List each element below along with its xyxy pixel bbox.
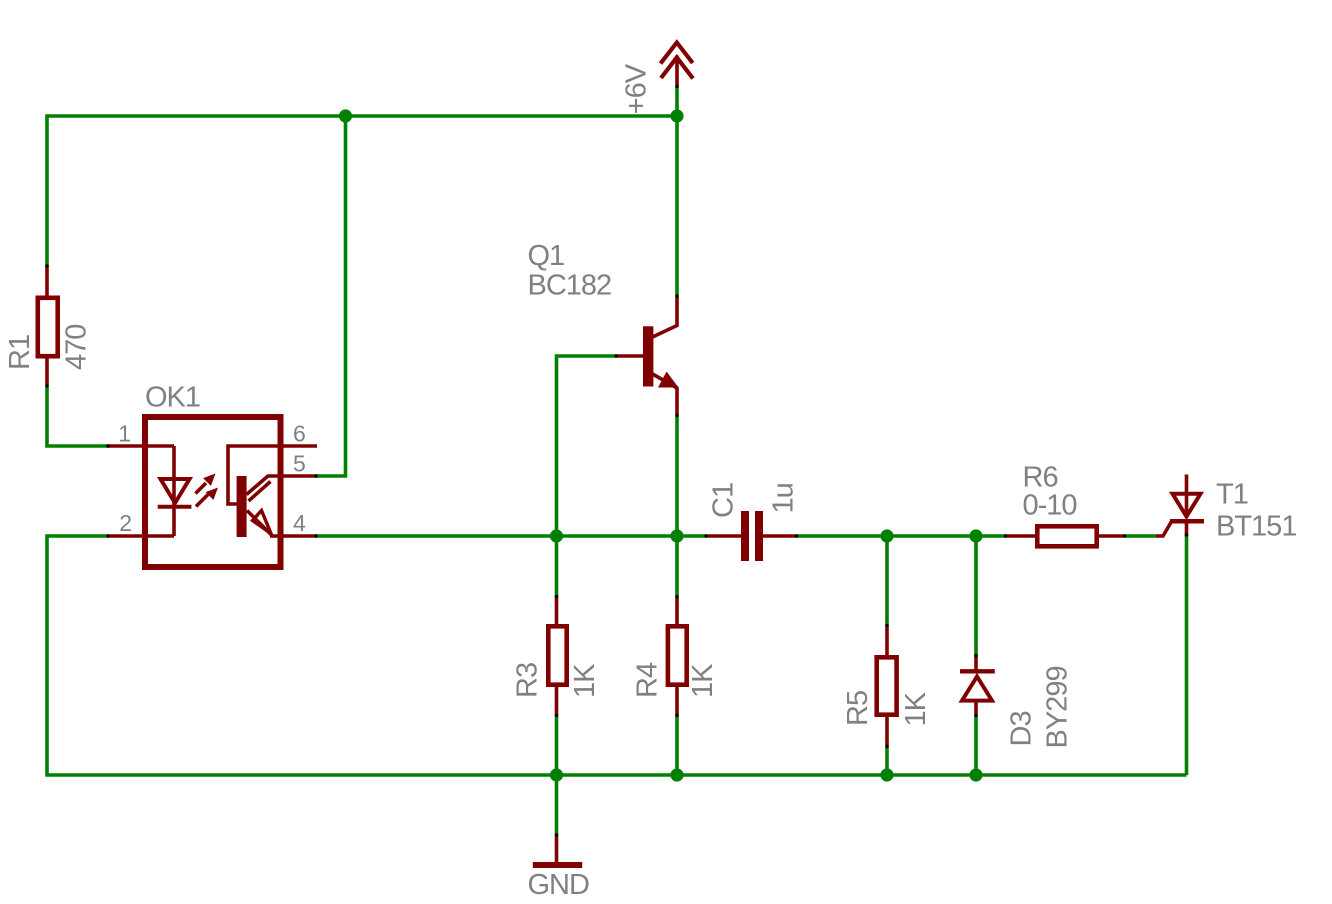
svg-text:0-10: 0-10 bbox=[1023, 490, 1077, 522]
svg-text:470: 470 bbox=[61, 325, 93, 370]
svg-text:Q1: Q1 bbox=[528, 240, 565, 272]
svg-text:1u: 1u bbox=[768, 483, 800, 513]
svg-text:GND: GND bbox=[528, 869, 590, 901]
svg-text:BC182: BC182 bbox=[528, 270, 612, 302]
svg-text:OK1: OK1 bbox=[145, 382, 200, 414]
svg-text:BT151: BT151 bbox=[1216, 511, 1296, 543]
svg-text:1K: 1K bbox=[687, 663, 719, 698]
svg-text:R1: R1 bbox=[4, 335, 36, 370]
svg-text:1: 1 bbox=[118, 421, 130, 447]
svg-text:R3: R3 bbox=[512, 663, 544, 698]
svg-text:6: 6 bbox=[293, 421, 305, 447]
svg-text:+6V: +6V bbox=[621, 63, 653, 114]
svg-text:5: 5 bbox=[293, 451, 305, 477]
svg-text:D3: D3 bbox=[1006, 711, 1038, 746]
svg-text:4: 4 bbox=[293, 510, 306, 536]
svg-text:T1: T1 bbox=[1216, 479, 1248, 511]
svg-text:R5: R5 bbox=[842, 691, 874, 726]
svg-text:R4: R4 bbox=[632, 662, 664, 698]
svg-text:C1: C1 bbox=[708, 483, 740, 518]
svg-text:BY299: BY299 bbox=[1042, 666, 1074, 748]
svg-text:1K: 1K bbox=[900, 691, 932, 726]
svg-text:1K: 1K bbox=[569, 663, 601, 698]
svg-text:2: 2 bbox=[119, 510, 131, 536]
